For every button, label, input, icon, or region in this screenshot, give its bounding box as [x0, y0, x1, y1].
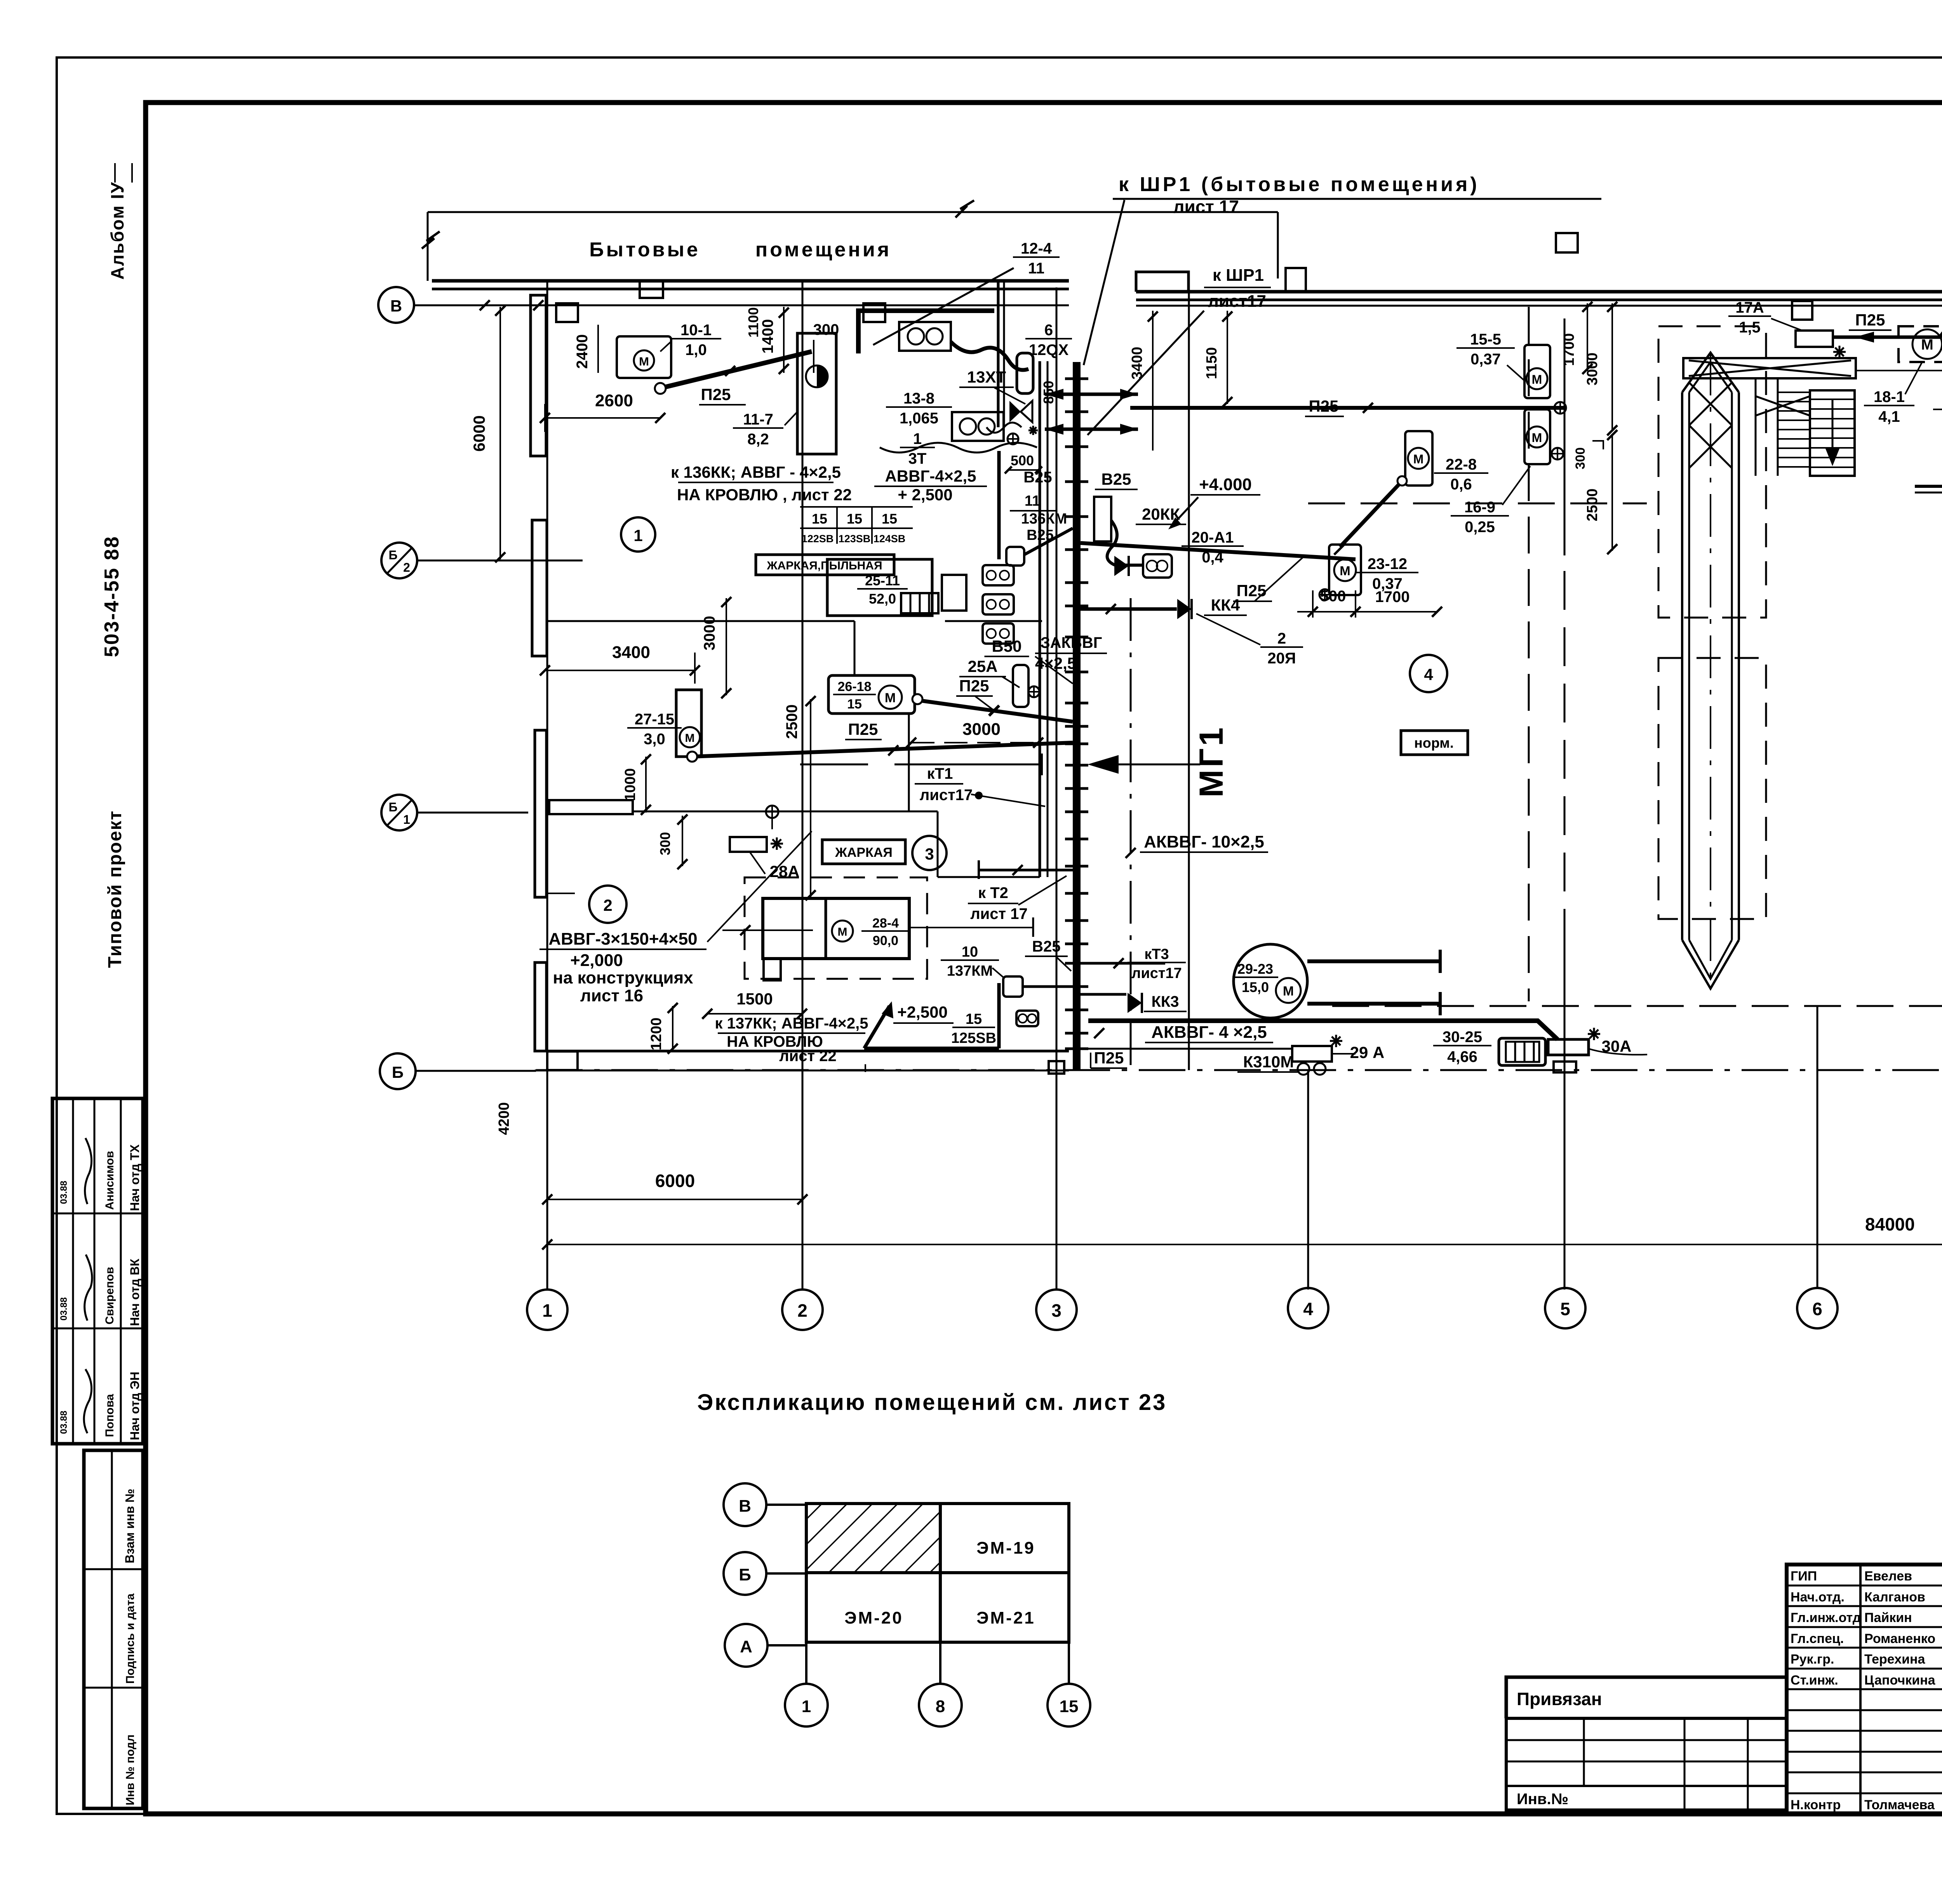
svg-text:3Т: 3Т: [908, 450, 927, 467]
branch bus kT3: [1081, 962, 1165, 965]
svg-text:03.88: 03.88: [59, 1181, 69, 1204]
branch bus kT2: [979, 869, 1073, 872]
svg-text:503-4-55 88: 503-4-55 88: [101, 536, 123, 657]
svg-text:2400: 2400: [574, 334, 591, 369]
grill device 30-25: [1499, 1038, 1545, 1065]
wavy cable to 18QХ: [1940, 317, 1942, 337]
svg-text:АВВГ-4×2,5: АВВГ-4×2,5: [885, 467, 976, 485]
svg-text:17А: 17А: [1735, 299, 1764, 316]
column stub on В wall mid: [863, 303, 885, 322]
grid circle 6: [1797, 1288, 1838, 1328]
svg-text:22-8: 22-8: [1446, 456, 1477, 473]
cable 27-15 to bus: [691, 743, 1073, 757]
svg-text:15: 15: [847, 697, 862, 712]
axis circle Б/2: [381, 543, 417, 578]
svg-text:+2,000: +2,000: [570, 951, 623, 970]
panel 25-11 box: [827, 559, 932, 616]
left wall strip d: [535, 962, 546, 1051]
svg-text:2: 2: [1277, 630, 1286, 647]
projector symbol bowtie: [1009, 401, 1021, 422]
svg-text:ЗАКВВГ: ЗАКВВГ: [1041, 634, 1102, 651]
axis line Б/1: [417, 812, 528, 814]
stair left structure: [1755, 378, 1757, 476]
svg-text:1,065: 1,065: [900, 410, 938, 427]
svg-text:13ХТ: 13ХТ: [967, 368, 1006, 386]
internal wall left of bus: [1039, 361, 1041, 877]
leader from cable note to wall: [548, 893, 575, 894]
branch arrows into household section: [1045, 393, 1138, 396]
device 30А box: [1548, 1039, 1589, 1055]
grid circle 1: [527, 1290, 567, 1330]
axis circle Б: [380, 1053, 416, 1089]
unit 28-4 outline: [763, 898, 909, 959]
svg-text:3400: 3400: [612, 643, 650, 662]
svg-text:+2,500: +2,500: [897, 1003, 948, 1021]
svg-text:Свирепов: Свирепов: [103, 1267, 116, 1324]
svg-text:М: М: [1283, 984, 1294, 999]
svg-text:12-4: 12-4: [1021, 240, 1052, 257]
wavy cable to 13ХТ: [951, 342, 1028, 370]
wire from 17А: [1833, 336, 1940, 339]
svg-text:Нач отд ЭН: Нач отд ЭН: [128, 1371, 142, 1440]
small square stub bottom near grid3: [1049, 1061, 1064, 1074]
svg-text:3400: 3400: [1129, 347, 1145, 380]
circuit table 15/123: [800, 506, 913, 508]
pit pointed top: [1682, 353, 1739, 392]
pit top landing: [1683, 358, 1856, 378]
svg-text:137КМ: 137КМ: [947, 963, 993, 979]
svg-text:500: 500: [1011, 453, 1034, 468]
svg-text:АКВВГ- 10×2,5: АКВВГ- 10×2,5: [1144, 832, 1264, 851]
svg-text:М: М: [685, 732, 695, 745]
key plan axis circle В: [724, 1483, 766, 1526]
wall edge line x3061: [1188, 287, 1190, 1070]
room note норм left: [1401, 731, 1468, 755]
column stub on Б wall at grid1: [547, 1051, 578, 1070]
svg-text:1: 1: [403, 813, 410, 827]
svg-text:Б: Б: [392, 1063, 404, 1081]
svg-text:11: 11: [1025, 493, 1040, 509]
svg-text:2: 2: [797, 1300, 807, 1321]
svg-text:300: 300: [657, 832, 673, 855]
key plan grid: [766, 1504, 806, 1506]
left stamp upper table: [52, 1098, 143, 1444]
dimension 6000 between grid 1 and 2: [547, 1199, 802, 1200]
svg-text:+4.000: +4.000: [1199, 475, 1252, 494]
pit pointed bottom: [1682, 940, 1739, 989]
svg-text:П25: П25: [959, 677, 989, 695]
svg-text:28-4: 28-4: [872, 916, 899, 931]
column stub under 30А: [1554, 1062, 1576, 1072]
svg-text:М: М: [838, 926, 847, 938]
svg-text:4×2,5: 4×2,5: [1035, 654, 1076, 672]
svg-text:1150: 1150: [1204, 347, 1220, 379]
svg-text:3: 3: [925, 845, 934, 863]
svg-text:лист17: лист17: [1131, 965, 1182, 982]
svg-text:В25: В25: [1023, 469, 1052, 486]
svg-text:84000: 84000: [1865, 1214, 1915, 1234]
svg-text:300: 300: [1573, 447, 1588, 470]
thin run to 29А: [1088, 1048, 1292, 1050]
svg-text:1,5: 1,5: [1739, 319, 1761, 336]
svg-text:лист 16: лист 16: [580, 986, 643, 1005]
svg-text:4: 4: [1303, 1299, 1313, 1319]
svg-text:П25: П25: [1855, 311, 1885, 329]
partition x2340: [908, 714, 910, 811]
svg-text:Анисимов: Анисимов: [103, 1151, 116, 1210]
svg-text:Н.контр: Н.контр: [1791, 1798, 1841, 1812]
grid line 3: [1056, 287, 1058, 1290]
dimension 84000 overall: [547, 1244, 1942, 1245]
svg-text:52,0: 52,0: [869, 591, 896, 607]
room note ЖАРКАЯ ПЫЛЬНАЯ: [756, 555, 894, 575]
pump motor 29-23 circle: [1234, 944, 1307, 1018]
fixture on partition: [766, 806, 778, 818]
svg-text:4,66: 4,66: [1447, 1048, 1477, 1065]
svg-text:18-1: 18-1: [1874, 388, 1905, 406]
svg-text:20-А1: 20-А1: [1192, 529, 1234, 546]
svg-text:к ШР1 (бытовые помещения): к ШР1 (бытовые помещения): [1119, 173, 1480, 196]
motor box 27-15: [676, 690, 701, 757]
svg-text:3000: 3000: [701, 616, 718, 651]
flag symbol black: [1114, 556, 1129, 576]
svg-text:М: М: [1532, 372, 1542, 386]
key plan column line 1: [805, 1642, 807, 1684]
svg-text:124ЅВ: 124ЅВ: [874, 533, 906, 545]
room circle 1: [621, 517, 655, 552]
svg-text:2: 2: [403, 560, 410, 574]
dashed motor box 18-1: [1898, 326, 1942, 362]
svg-text:Бытовые: Бытовые: [589, 238, 700, 261]
svg-text:В: В: [390, 297, 402, 315]
svg-text:16-9: 16-9: [1464, 499, 1495, 516]
wavy cable bus to heater: [1107, 520, 1142, 565]
branch bus to КК4: [1081, 607, 1177, 611]
svg-text:к 136КК; АВВГ - 4×2,5: к 136КК; АВВГ - 4×2,5: [671, 463, 841, 481]
svg-text:Романенко: Романенко: [1864, 1631, 1935, 1646]
svg-text:1: 1: [542, 1300, 552, 1321]
feeder to 22-8: [1340, 478, 1405, 547]
svg-text:3000: 3000: [1584, 353, 1601, 386]
axis line Б/2: [417, 560, 583, 562]
svg-text:15: 15: [966, 1011, 982, 1027]
svg-text:КК3: КК3: [1151, 993, 1179, 1010]
svg-text:В25: В25: [1101, 470, 1131, 488]
axis line Б dash-dot: [416, 1070, 536, 1072]
svg-text:90,0: 90,0: [873, 933, 898, 948]
title block outline: [1787, 1565, 1942, 1814]
svg-text:15: 15: [882, 511, 897, 527]
left wall strip c: [535, 730, 546, 897]
svg-text:Б: Б: [389, 548, 398, 562]
device 13ХТ tube: [1017, 353, 1033, 393]
leader к ШР1 to bus: [1084, 200, 1124, 365]
left stamp lower table: [84, 1450, 143, 1808]
grid line 6: [1817, 1006, 1818, 1288]
stair ladder right: [1810, 390, 1855, 476]
title block staff columns: [1859, 1565, 1862, 1814]
svg-text:П25: П25: [701, 385, 731, 404]
device box В25 right of bus: [1094, 497, 1111, 541]
heater symbol with infinity: [1143, 554, 1172, 578]
svg-text:норм.: норм.: [1414, 735, 1454, 751]
svg-text:Инв № подл: Инв № подл: [124, 1735, 137, 1805]
column stub on В wall at grid1: [556, 303, 578, 322]
svg-text:Гл.спец.: Гл.спец.: [1791, 1631, 1844, 1646]
svg-text:29-23: 29-23: [1237, 961, 1273, 977]
device 25А tube: [1013, 665, 1028, 707]
svg-text:20Я: 20Я: [1267, 650, 1296, 667]
column stub right section 1: [1792, 301, 1812, 320]
svg-text:Пайкин: Пайкин: [1864, 1610, 1912, 1625]
svg-text:АВВГ-3×150+4×50: АВВГ-3×150+4×50: [548, 929, 697, 949]
svg-text:П25: П25: [1094, 1049, 1124, 1067]
motor box 22-8: [1405, 431, 1432, 486]
cable arrow +2,500: [864, 1006, 889, 1048]
wire П25 room1: [661, 352, 812, 388]
svg-text:Б: Б: [739, 1565, 751, 1584]
cell Привязан: [1506, 1677, 1787, 1718]
svg-text:15: 15: [847, 511, 862, 527]
svg-text:М: М: [1921, 337, 1933, 353]
svg-text:8: 8: [936, 1697, 945, 1716]
left wall strip a: [531, 295, 546, 456]
svg-text:М: М: [1340, 564, 1350, 578]
svg-text:26-18: 26-18: [838, 679, 872, 694]
grid line 5: [1564, 318, 1566, 555]
key plan column line 8: [939, 1642, 941, 1684]
flag symbol КК4: [1177, 599, 1192, 619]
key plan axis circle Б: [724, 1552, 766, 1595]
svg-text:к Т2: к Т2: [978, 884, 1008, 902]
top wall band left section: [432, 279, 1069, 283]
feeder П25 row Б/2 right: [1081, 543, 1356, 559]
svg-text:6000: 6000: [655, 1171, 695, 1191]
svg-text:лист 17: лист 17: [970, 905, 1027, 922]
pit dashed envelope lower: [1658, 658, 1766, 919]
bottom wall left section: [535, 1050, 1069, 1053]
motor box 15-5 upper: [1524, 345, 1550, 398]
grid line 2: [802, 281, 804, 1290]
svg-text:125ЅВ: 125ЅВ: [951, 1030, 996, 1046]
svg-text:2: 2: [603, 896, 612, 914]
panel 11-7 cabinet: [797, 333, 836, 454]
motor 10-1 box: [617, 336, 671, 378]
luminaire box 2-lamp: [952, 412, 1004, 441]
svg-text:4: 4: [1424, 665, 1433, 684]
svg-text:ЖАРКАЯ: ЖАРКАЯ: [835, 845, 893, 860]
unit 28-4 foot: [764, 959, 781, 980]
socket boxes stack: [983, 565, 1014, 585]
cabinet right of 25-11: [942, 575, 966, 611]
svg-text:0,25: 0,25: [1465, 519, 1495, 536]
kT1 run with T ends: [894, 764, 1042, 766]
dashed floor edge line y1296: [1308, 503, 1647, 505]
svg-text:2500: 2500: [1584, 489, 1601, 522]
grid circle 2: [782, 1290, 823, 1330]
bottom wall right section dashed: [1332, 1005, 1942, 1007]
device 17А box: [1796, 331, 1833, 347]
svg-text:29 А: 29 А: [1350, 1043, 1385, 1062]
motor box 26-18 with label: [828, 675, 915, 714]
axis circle Б/1: [381, 795, 417, 830]
svg-text:23-12: 23-12: [1368, 555, 1407, 573]
svg-text:Евелев: Евелев: [1864, 1569, 1912, 1584]
broken boundary line above plan: [428, 211, 1278, 213]
junction box 136КМ: [1006, 547, 1024, 566]
pit centre line: [1710, 353, 1711, 989]
top wall band right section: [1136, 290, 1942, 294]
svg-text:1400: 1400: [759, 319, 776, 354]
svg-text:Типовой проект: Типовой проект: [105, 810, 125, 968]
svg-text:Привязан: Привязан: [1517, 1689, 1602, 1709]
grill symbol 25-11: [901, 593, 938, 613]
svg-text:122ЅВ: 122ЅВ: [802, 533, 834, 545]
svg-text:П25: П25: [848, 720, 878, 738]
svg-text:Попова: Попова: [103, 1394, 116, 1437]
grid circle 4: [1288, 1288, 1328, 1328]
svg-text:А: А: [740, 1637, 752, 1656]
pit dashed envelope upper: [1658, 326, 1766, 618]
leader 12-4: [873, 268, 1014, 345]
branch bus lower: [1081, 993, 1126, 996]
bus arrow from МГ1 label: [1115, 764, 1200, 766]
svg-text:03.88: 03.88: [59, 1297, 69, 1321]
cable 26-18 to bus: [921, 701, 1073, 722]
device box 137КМ: [1003, 976, 1023, 997]
connector at 13-8: [1008, 433, 1018, 444]
svg-text:лист 22: лист 22: [779, 1048, 836, 1065]
svg-text:1: 1: [913, 430, 922, 447]
svg-text:кТ3: кТ3: [1144, 946, 1169, 962]
svg-text:11-7: 11-7: [743, 411, 773, 428]
motor box 16-9 lower: [1524, 409, 1550, 464]
partition room2/3 horizontal: [633, 811, 938, 813]
dashed envelope unit 28-4: [745, 877, 927, 979]
room circle 3: [912, 836, 947, 870]
key plan column line 15: [1068, 1642, 1070, 1684]
svg-text:15: 15: [1060, 1697, 1079, 1716]
svg-text:П25: П25: [1309, 397, 1339, 415]
partition below room1: [546, 620, 854, 622]
socket box room3: [1016, 1011, 1038, 1026]
device 29А box: [1292, 1046, 1332, 1062]
column stub roof access left: [640, 281, 663, 298]
svg-text:Нач отд ВК: Нач отд ВК: [128, 1258, 142, 1326]
svg-text:1: 1: [802, 1697, 811, 1716]
svg-text:15: 15: [812, 511, 827, 527]
svg-text:13-8: 13-8: [903, 390, 934, 407]
key plan axis circle А: [725, 1624, 767, 1667]
svg-text:кТ1: кТ1: [927, 765, 953, 782]
svg-text:11: 11: [1028, 260, 1044, 277]
svg-text:Цапочкина: Цапочкина: [1864, 1673, 1936, 1688]
svg-text:0,37: 0,37: [1372, 575, 1403, 592]
svg-text:3000: 3000: [962, 720, 1001, 739]
svg-text:к ШР1: к ШР1: [1213, 266, 1264, 285]
svg-text:В50: В50: [992, 637, 1021, 655]
svg-text:К310М: К310М: [1243, 1053, 1294, 1071]
svg-text:30-25: 30-25: [1443, 1029, 1482, 1046]
svg-text:ЭМ-19: ЭМ-19: [976, 1539, 1035, 1558]
luminaire 12-4 box: [899, 322, 951, 351]
column stub above wall near notch: [1556, 233, 1578, 252]
svg-text:П25: П25: [1237, 581, 1267, 600]
dashed partition right section room4: [1528, 307, 1530, 1001]
svg-text:6000: 6000: [470, 415, 488, 451]
grid circle 5: [1545, 1288, 1585, 1328]
svg-text:В25: В25: [1032, 938, 1060, 955]
room circle 2: [589, 886, 626, 923]
svg-text:М: М: [1532, 431, 1542, 445]
svg-text:М: М: [1413, 452, 1424, 466]
key plan cells: [806, 1504, 1069, 1642]
svg-text:лист 17: лист 17: [1173, 197, 1239, 217]
svg-text:к 137КК; АВВГ-4×2,5: к 137КК; АВВГ-4×2,5: [715, 1015, 868, 1032]
axis circle В: [378, 287, 414, 323]
svg-text:ГИП: ГИП: [1791, 1569, 1817, 1584]
feeder П25 row В: [1130, 406, 1566, 410]
duct horizontal branch: [1915, 485, 1942, 488]
svg-text:лист17: лист17: [920, 787, 973, 804]
svg-text:Нач.отд.: Нач.отд.: [1791, 1590, 1845, 1605]
svg-text:6: 6: [1044, 322, 1053, 339]
svg-text:Терехина: Терехина: [1864, 1652, 1926, 1667]
pump suction pipes with T ends: [1307, 959, 1440, 963]
svg-text:ЭМ-21: ЭМ-21: [976, 1608, 1035, 1627]
svg-text:Ст.инж.: Ст.инж.: [1791, 1673, 1838, 1688]
top wall notch at ШР1 riser: [1136, 272, 1189, 292]
vertical dash-dot line x2911: [1130, 598, 1132, 1070]
svg-text:25-11: 25-11: [865, 573, 900, 588]
room note ЖАРКАЯ: [822, 840, 905, 864]
pit cross braces: [1689, 383, 1732, 425]
svg-text:2500: 2500: [783, 705, 800, 739]
cable drop to 136КМ: [997, 451, 1001, 559]
wall edge vertical at grid 1 top: [427, 212, 429, 281]
svg-text:Нач отд ТХ: Нач отд ТХ: [128, 1144, 142, 1211]
svg-text:Рук.гр.: Рук.гр.: [1791, 1652, 1834, 1667]
svg-text:М: М: [885, 691, 896, 705]
svg-text:МГ1: МГ1: [1193, 725, 1230, 797]
svg-text:Альбом IУ: Альбом IУ: [107, 181, 127, 280]
svg-text:8,2: 8,2: [747, 431, 769, 448]
svg-text:Взам инв №: Взам инв №: [123, 1489, 137, 1563]
internal wall x2575: [997, 281, 1000, 427]
svg-text:4200: 4200: [496, 1102, 512, 1135]
grid line 1: [546, 281, 548, 1290]
svg-text:15-5: 15-5: [1470, 331, 1501, 348]
svg-text:ЭМ-20: ЭМ-20: [844, 1608, 903, 1627]
svg-text:3: 3: [1051, 1300, 1061, 1321]
wavy break line room boundary: [880, 443, 1037, 453]
svg-text:1500: 1500: [736, 990, 773, 1008]
motor box 23-12: [1329, 545, 1361, 595]
svg-text:М: М: [639, 355, 649, 368]
svg-text:КК4: КК4: [1211, 596, 1240, 614]
svg-text:2600: 2600: [595, 391, 633, 410]
room circle 4: [1410, 655, 1447, 692]
svg-text:Б: Б: [389, 800, 398, 814]
svg-text:27-15: 27-15: [635, 711, 674, 728]
svg-text:03.88: 03.88: [59, 1411, 69, 1434]
svg-text:лист17: лист17: [1208, 292, 1266, 311]
left wall strip b: [532, 520, 547, 656]
svg-text:+ 2,500: + 2,500: [898, 486, 952, 504]
svg-text:1000: 1000: [622, 768, 639, 801]
svg-text:Экспликацию помещений см. лис: Экспликацию помещений см. лист 23: [697, 1390, 1167, 1415]
svg-text:123ЅВ: 123ЅВ: [839, 533, 871, 545]
